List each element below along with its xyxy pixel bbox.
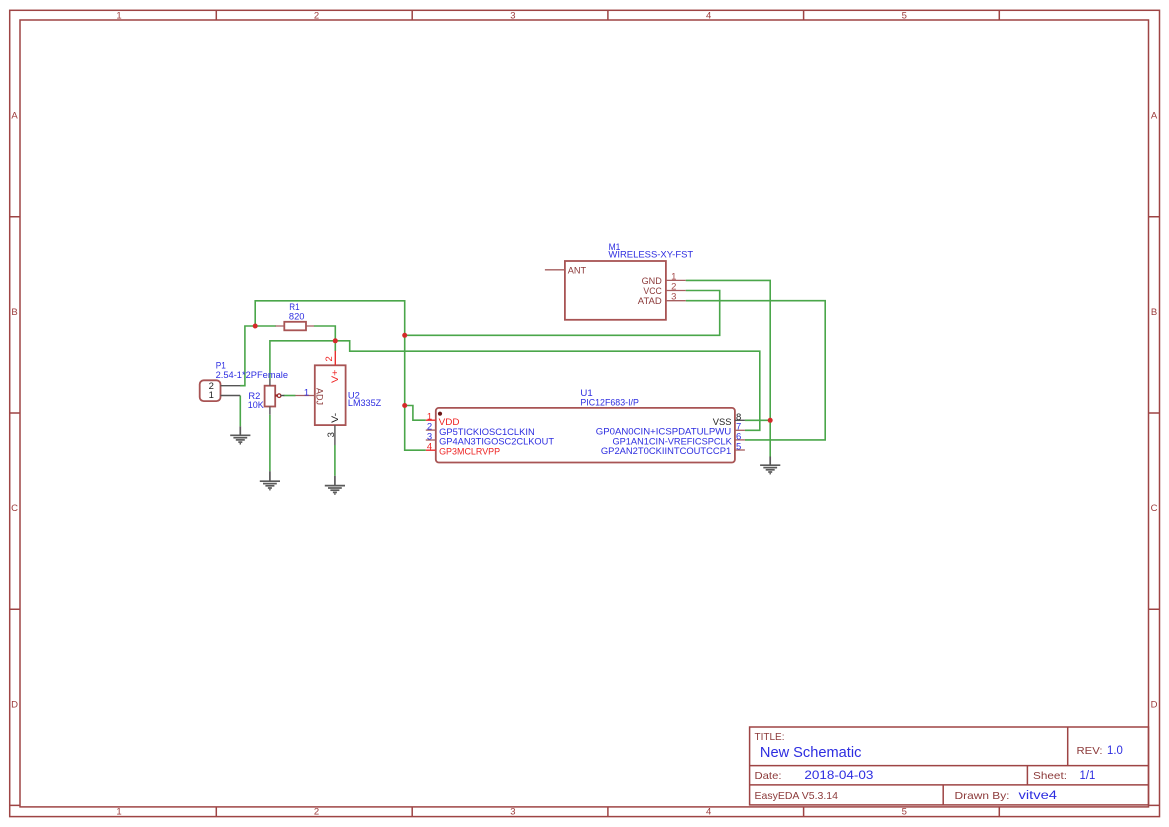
frame column ticks top xyxy=(216,10,999,20)
svg-text:ANT: ANT xyxy=(568,265,587,276)
U1 pin 3 stub xyxy=(426,439,436,441)
svg-text:1: 1 xyxy=(116,807,121,818)
title block outline xyxy=(750,727,1149,805)
wire M1 GND pin1 down right side xyxy=(686,280,771,456)
svg-text:5: 5 xyxy=(902,807,907,818)
wire junction A to P1 pin2 xyxy=(240,326,255,386)
wire junction B to U2 V+ xyxy=(334,341,336,351)
svg-text:3: 3 xyxy=(326,432,337,437)
svg-text:TITLE:: TITLE: xyxy=(755,732,785,743)
svg-text:A: A xyxy=(11,111,18,122)
ground symbol at U2 V- xyxy=(325,476,345,494)
svg-text:2: 2 xyxy=(314,10,319,21)
svg-text:EasyEDA V5.3.14: EasyEDA V5.3.14 xyxy=(755,790,839,802)
svg-text:D: D xyxy=(11,699,18,710)
svg-text:1: 1 xyxy=(209,390,214,401)
wire U2 V- pin3 to ground xyxy=(334,445,336,476)
svg-text:GP3MCLRVPP: GP3MCLRVPP xyxy=(439,446,500,457)
svg-text:PIC12F683-I/P: PIC12F683-I/P xyxy=(580,398,639,409)
svg-text:10K: 10K xyxy=(248,400,265,411)
U2 V- pin stub (pin 3, black) xyxy=(334,425,336,445)
svg-text:2.54-1*2PFemale: 2.54-1*2PFemale xyxy=(216,370,288,381)
svg-text:V+: V+ xyxy=(330,369,341,383)
junction dot A xyxy=(253,324,258,329)
potentiometer R2 wiper xyxy=(275,394,277,396)
svg-text:C: C xyxy=(1151,503,1158,514)
U2 ADJ pin stub (pin 1) xyxy=(295,395,314,397)
U1 pin 1 stub VDD (red) xyxy=(426,419,436,421)
svg-text:4: 4 xyxy=(427,442,432,453)
potentiometer R2 body xyxy=(265,386,276,407)
svg-text:C: C xyxy=(11,503,18,514)
svg-text:GP2AN2T0CKIINTCOUTCCP1: GP2AN2T0CKIINTCOUTCCP1 xyxy=(601,446,731,457)
svg-text:3: 3 xyxy=(671,292,676,303)
svg-text:Date:: Date: xyxy=(755,770,782,782)
M1 VCC pin stub (pin 2) xyxy=(666,290,686,292)
U1 pin 2 stub xyxy=(426,429,436,431)
svg-text:5: 5 xyxy=(736,441,741,452)
U1 pin 5 stub xyxy=(735,449,745,451)
svg-text:1.0: 1.0 xyxy=(1107,745,1123,757)
svg-text:2018-04-03: 2018-04-03 xyxy=(804,770,873,782)
svg-text:WIRELESS-XY-FST: WIRELESS-XY-FST xyxy=(608,250,693,261)
resistor R1 body xyxy=(284,322,306,331)
svg-text:ATAD: ATAD xyxy=(638,296,662,307)
junction dot B xyxy=(333,338,338,343)
svg-text:Drawn By:: Drawn By: xyxy=(955,790,1010,802)
M1 GND pin stub (pin 1) xyxy=(666,279,686,281)
wire junction B to R2 top xyxy=(270,341,335,379)
connector P1 pin stubs xyxy=(221,386,241,396)
svg-text:vitve4: vitve4 xyxy=(1019,790,1058,802)
U1 pin1 indicator dot xyxy=(438,412,442,416)
ground symbol at R2 bottom xyxy=(260,471,280,489)
junction dot D (VDD tap) xyxy=(402,403,407,408)
wire VCC top bus: junction A up, across, down to pin4 xyxy=(255,301,426,450)
svg-text:3: 3 xyxy=(510,807,515,818)
wire R2 wiper to U2 ADJ xyxy=(284,395,296,397)
wire M1 VCC pin2 to VDD bus xyxy=(405,291,720,336)
wire junction B to U1 pin7 GP0 long route xyxy=(335,341,760,431)
svg-text:5: 5 xyxy=(902,10,907,21)
svg-text:B: B xyxy=(1151,307,1157,318)
connector P1 body xyxy=(200,380,221,401)
M1 ATAD pin stub (pin 3) xyxy=(666,300,686,302)
frame column ticks bottom xyxy=(216,807,999,817)
svg-text:2: 2 xyxy=(314,807,319,818)
wire junction A to R1 left lead xyxy=(255,325,276,327)
M1 ANT pin stub xyxy=(545,269,565,271)
U2 V+ pin stub (pin 2, red) xyxy=(334,351,336,366)
regulator U2 body xyxy=(315,365,346,425)
ground symbol at P1 pin1 xyxy=(230,426,250,443)
svg-text:A: A xyxy=(1151,111,1158,122)
junction dot E (VSS/GND) xyxy=(768,418,773,423)
wire R2 bottom to ground xyxy=(269,415,271,471)
wire U1 pin8 VSS to GND vertical xyxy=(745,419,770,421)
U1 pin 7 stub xyxy=(735,429,745,431)
wire P1 pin1 to ground xyxy=(239,396,241,427)
svg-text:1: 1 xyxy=(116,10,121,21)
U1 pin 6 stub xyxy=(735,439,745,441)
potentiometer R2 top/bottom leads xyxy=(269,379,271,415)
wire junction D Z-bend to U1 pin1 VDD xyxy=(405,406,426,421)
svg-text:D: D xyxy=(1151,699,1158,710)
svg-text:V-: V- xyxy=(330,413,341,423)
svg-text:B: B xyxy=(11,307,17,318)
svg-text:LM335Z: LM335Z xyxy=(348,398,381,409)
wire M1 ATAD pin3 to U1 pin6 xyxy=(686,301,826,440)
svg-text:3: 3 xyxy=(510,10,515,21)
IC U1 body xyxy=(436,408,735,463)
junction dot C (VCC bus) xyxy=(402,333,407,338)
svg-text:1/1: 1/1 xyxy=(1080,770,1096,782)
module M1 body xyxy=(565,261,666,320)
svg-text:ADJ: ADJ xyxy=(314,388,325,405)
resistor R1 leads xyxy=(276,325,314,327)
svg-text:2: 2 xyxy=(324,356,335,361)
frame row ticks right xyxy=(1149,217,1160,806)
svg-text:1: 1 xyxy=(304,388,309,399)
svg-text:New Schematic: New Schematic xyxy=(760,744,862,761)
wire R1 right lead to junction B xyxy=(314,326,336,341)
svg-text:4: 4 xyxy=(706,807,711,818)
frame row ticks left xyxy=(10,217,20,806)
svg-text:REV:: REV: xyxy=(1077,745,1103,757)
U1 pin 4 stub (red) xyxy=(426,449,436,451)
U1 pin 8 stub VSS (black) xyxy=(735,419,745,421)
svg-text:Sheet:: Sheet: xyxy=(1033,770,1067,782)
ground symbol at GND net right side xyxy=(760,457,780,474)
svg-text:4: 4 xyxy=(706,10,711,21)
svg-text:820: 820 xyxy=(289,311,305,322)
